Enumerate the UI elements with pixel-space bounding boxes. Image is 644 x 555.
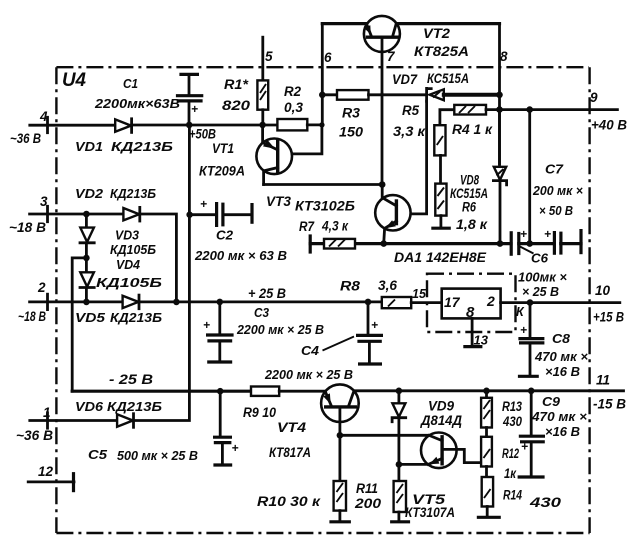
svg-text:R3: R3: [342, 106, 361, 121]
solid box collector rail of VT2: [322, 24, 499, 164]
diode VD6 КД213Б: [117, 414, 133, 428]
IC ground lead: [471, 318, 474, 345]
wire R9 to VT4: [279, 390, 325, 393]
svg-text:1к: 1к: [504, 466, 517, 481]
svg-text:12: 12: [38, 464, 54, 479]
resistor R8 3,6 on +25V line: [382, 297, 411, 308]
resistor R4 1k: [454, 105, 486, 115]
svg-text:С5: С5: [88, 447, 108, 462]
svg-text:VT1: VT1: [212, 141, 234, 156]
svg-text:2: 2: [486, 293, 495, 309]
svg-text:4,3 к: 4,3 к: [321, 219, 349, 234]
transistor VT1 KT209A (PNP): [256, 124, 292, 185]
junction C8 on +15V line: [527, 299, 534, 306]
svg-text:200 мк ×: 200 мк ×: [532, 183, 583, 198]
svg-text:С1: С1: [123, 76, 138, 91]
junction C1 on line 4: [186, 122, 193, 129]
junction VD3/VD4 midpoint: [83, 255, 90, 262]
svg-text:R5: R5: [402, 103, 419, 118]
resistor R5 3,3k vertical: [434, 110, 454, 156]
terminal 1 pin tick: [46, 413, 49, 428]
svg-text:R7: R7: [299, 219, 315, 234]
svg-text:VT4: VT4: [277, 420, 307, 435]
svg-text:8: 8: [466, 304, 475, 321]
wire -25V rail: [72, 390, 251, 393]
svg-text:С3: С3: [254, 305, 270, 320]
wire terminal 12 stub: [28, 480, 74, 483]
junction VD7 line on right vertical: [496, 92, 503, 99]
wire -15V line VT4 to terminal 11: [354, 389, 624, 392]
ground of R6: [433, 227, 449, 230]
svg-text:С4: С4: [301, 343, 320, 358]
transistor VT4 КТ817А: [321, 384, 359, 481]
wire terminal 5 stub: [261, 37, 264, 80]
wire line 1 (~36 V, terminal 1): [30, 419, 117, 422]
svg-text:КД213Б: КД213Б: [107, 399, 162, 414]
junction C5 on -25V rail: [217, 388, 224, 395]
svg-text:500 мк × 25 В: 500 мк × 25 В: [117, 448, 198, 463]
resistor R7 4,3k: [324, 239, 355, 249]
svg-text:+: +: [520, 227, 527, 241]
svg-text:Д814Д: Д814Д: [420, 413, 462, 428]
wire line 4 input rail (~36 V, terminal 4): [30, 124, 115, 127]
junction VD4 on line 2: [83, 299, 90, 306]
svg-text:+: +: [520, 323, 527, 337]
svg-text:×16 В: ×16 В: [545, 424, 580, 439]
wire R4 to terminal 9 (+40V line): [486, 108, 617, 111]
svg-text:КД213Б: КД213Б: [110, 186, 156, 201]
border U4 module dash-dot frame: [56, 67, 589, 533]
svg-text:+: +: [521, 440, 528, 454]
svg-text:- 25 В: - 25 В: [109, 372, 153, 387]
resistor R9 10 on -25V rail: [251, 387, 279, 396]
junction VT3 emitter on C6 line: [380, 240, 387, 247]
svg-text:~18 В: ~18 В: [18, 309, 46, 324]
svg-text:~18 В: ~18 В: [9, 220, 46, 235]
wire C7 branch vertical from +40V line: [528, 110, 531, 244]
wire line 3 (~18 V, terminal 3): [30, 213, 124, 216]
svg-text:КТ3102Б: КТ3102Б: [295, 199, 355, 214]
svg-text:КТ3107А: КТ3107А: [405, 505, 455, 520]
wire line 2 (~18 V, terminal 2): [30, 300, 123, 303]
svg-text:+: +: [191, 102, 198, 116]
svg-text:× 25 В: × 25 В: [522, 284, 559, 299]
junction VD2 branch on line 2: [173, 299, 180, 306]
junction R3 left on line6 vertical: [319, 92, 326, 99]
junction VT1/VT3/VT2 base node: [379, 181, 386, 188]
label C6 with pointer: [520, 247, 534, 254]
R7 left end terminal bar: [309, 236, 312, 252]
svg-text:+50В: +50В: [189, 127, 216, 142]
svg-text:С9: С9: [542, 394, 561, 409]
svg-text:+: +: [203, 318, 210, 332]
diode VD5 КД213Б: [123, 295, 139, 309]
diode VD3 КД105Б: [80, 228, 94, 243]
svg-text:×16 В: ×16 В: [545, 364, 580, 379]
junction VD8 on C6 line: [497, 240, 504, 247]
resistor R11 200 vertical: [394, 481, 406, 520]
svg-text:+: +: [371, 318, 378, 332]
svg-text:КД105Б: КД105Б: [96, 275, 162, 290]
wire VD7 anode to box right vertical (bold): [444, 93, 499, 97]
capacitor C5 500uF 25V: [215, 391, 239, 465]
svg-text:-15 В: -15 В: [593, 397, 626, 412]
svg-text:VD7: VD7: [392, 72, 418, 87]
IC DA1 142ЕН8Е box: [442, 289, 501, 319]
svg-text:430: 430: [529, 495, 562, 510]
transistor VT2 KT825A (PNP) on top rail: [364, 16, 400, 94]
svg-text:К: К: [516, 305, 525, 319]
svg-text:10: 10: [595, 283, 611, 298]
svg-text:R6: R6: [462, 200, 476, 215]
svg-text:100мк ×: 100мк ×: [518, 270, 567, 285]
terminal 2 pin tick: [46, 294, 49, 309]
svg-text:15: 15: [412, 287, 427, 301]
svg-text:R11: R11: [356, 481, 378, 496]
wire +25V line from VD5 to R8: [139, 300, 382, 303]
svg-text:13: 13: [474, 333, 489, 348]
svg-text:R10 30 к: R10 30 к: [257, 494, 321, 509]
svg-text:470 мк ×: 470 мк ×: [531, 409, 587, 424]
svg-text:6: 6: [324, 50, 332, 65]
wire VD3/VD4 string vertical: [85, 214, 88, 302]
svg-text:С7: С7: [545, 162, 564, 177]
hatch R4: [459, 106, 475, 113]
resistor R10 30k vertical: [334, 481, 346, 520]
label C4 with pointer: [323, 337, 355, 351]
svg-text:2200 мк × 63 В: 2200 мк × 63 В: [194, 248, 287, 263]
wire rectifier output vertical (+50V node: C1, C2, VD6): [133, 125, 190, 421]
svg-text:+: +: [544, 227, 551, 241]
svg-text:470 мк ×: 470 мк ×: [534, 349, 588, 364]
capacitor C2 2200uF 63V: [190, 197, 252, 225]
diode VD7 КС515А zener: [427, 88, 444, 101]
svg-text:U4: U4: [62, 70, 86, 91]
svg-text:11: 11: [596, 373, 610, 388]
wire DA1 output to terminal 10 (+15V): [501, 301, 620, 304]
wire line 4 after VD1 to R2: [132, 124, 278, 127]
wire VT2 base down to collector node (crosses VD7 line): [381, 94, 384, 185]
junction R1/VT1 emitter on line 4: [259, 122, 266, 129]
junction VT4 base to VT5 collector line: [337, 432, 344, 439]
svg-text:VD1: VD1: [75, 139, 103, 154]
svg-text:R8: R8: [340, 279, 361, 294]
resistor R13 430 vertical: [481, 388, 492, 437]
svg-text:КТ825А: КТ825А: [414, 44, 469, 59]
svg-text:1: 1: [43, 405, 51, 420]
DA1 dash-dot box: [427, 274, 516, 332]
resistor R2 0,3 on line 4: [277, 119, 307, 130]
capacitor C6 100uF 25V: [511, 227, 527, 254]
wire box vertical between R4 line and VD8: [498, 110, 501, 165]
wire VD2 output corner down to +25V line: [140, 214, 177, 302]
ground of R11: [392, 520, 409, 523]
svg-text:VD6: VD6: [75, 399, 104, 414]
svg-text:R4 1 к: R4 1 к: [452, 122, 493, 137]
svg-text:430: 430: [502, 414, 522, 429]
svg-text:VD2: VD2: [75, 186, 104, 201]
svg-text:3,3 к: 3,3 к: [393, 124, 426, 139]
svg-text:С6: С6: [531, 251, 549, 266]
diode VD8 КС515А zener: [493, 167, 506, 244]
diode VD1 КД213Б: [115, 119, 131, 133]
terminal 4 pin tick: [46, 117, 49, 132]
resistor R6 1,8k vertical: [435, 155, 446, 226]
junction C9 on -15V line: [528, 388, 535, 395]
svg-text:+ 25 В: + 25 В: [248, 286, 286, 301]
junction R2 / line6 vertical: [319, 122, 324, 127]
svg-text:4: 4: [39, 109, 48, 124]
svg-text:+15 В: +15 В: [593, 310, 624, 325]
diode VD9 Д814Д zener: [392, 391, 406, 481]
wire R8 to DA1 input: [411, 301, 442, 304]
junction VD9 on -15V line: [396, 388, 403, 395]
svg-text:КТ817А: КТ817А: [269, 445, 311, 460]
svg-text:КС515А: КС515А: [427, 71, 469, 86]
svg-text:+: +: [232, 441, 239, 455]
svg-text:С2: С2: [216, 228, 234, 243]
resistor R12 1k vertical: [481, 437, 492, 477]
ground of R10: [331, 520, 349, 523]
svg-text:2200 мк × 25 В: 2200 мк × 25 В: [264, 367, 353, 382]
transistor VT3 КТ3102Б (NPN): [375, 185, 410, 244]
ground of DA1: [465, 345, 481, 348]
wire midpoint bypass to -25V rail: [72, 258, 86, 391]
svg-text:820: 820: [222, 98, 251, 113]
svg-text:R12: R12: [502, 446, 519, 461]
wire R2 right end down to VT1 base: [279, 125, 322, 154]
svg-text:+40 В: +40 В: [591, 118, 627, 133]
svg-text:2200 мк × 25 В: 2200 мк × 25 В: [236, 322, 324, 337]
junction VD9 / VT5 emitter line: [396, 461, 403, 468]
wire VT4 base to VT5 collector: [340, 434, 429, 437]
terminal 12 end bar: [72, 474, 75, 491]
junction C2 on rectifier vertical: [186, 212, 192, 218]
svg-text:DA1 142ЕН8Е: DA1 142ЕН8Е: [394, 250, 487, 265]
svg-text:С8: С8: [552, 331, 571, 346]
capacitor C7 200uF 50V: [544, 227, 581, 253]
junction C3 on line 2: [217, 299, 224, 306]
ground of R14: [478, 516, 499, 519]
svg-text:17: 17: [444, 294, 461, 310]
svg-text:VD5: VD5: [75, 310, 106, 325]
svg-text:КД213Б: КД213Б: [111, 139, 173, 154]
svg-text:~36 В: ~36 В: [16, 428, 53, 443]
svg-text:8: 8: [500, 49, 508, 64]
capacitor C4 2200uF 25V: [358, 302, 382, 364]
wire VT1 collector to VT2 base node: [264, 183, 383, 186]
junction C7 branch on C6 line: [526, 240, 533, 247]
svg-text:3: 3: [40, 194, 48, 209]
resistor R1* 820 vertical: [257, 80, 268, 123]
junction +40V line / box vertical: [496, 106, 503, 113]
diode VD4 КД105Б: [80, 272, 94, 287]
wire R3 to VD7: [369, 93, 426, 96]
svg-text:КД105Б: КД105Б: [110, 242, 156, 257]
svg-text:× 50 В: × 50 В: [539, 203, 573, 218]
svg-text:+: +: [200, 197, 207, 211]
resistor R14 430 vertical: [482, 477, 493, 516]
svg-text:VD3: VD3: [115, 228, 140, 243]
svg-text:R14: R14: [503, 488, 522, 503]
svg-text:~36 В: ~36 В: [10, 131, 41, 146]
junction +40V line / C7 branch: [526, 106, 533, 113]
svg-text:3,6: 3,6: [378, 278, 397, 293]
capacitor C3 2200uF 25V: [203, 302, 232, 362]
svg-text:2: 2: [37, 280, 46, 295]
svg-text:5: 5: [265, 49, 273, 64]
svg-text:200: 200: [354, 496, 382, 511]
svg-text:150: 150: [339, 125, 364, 140]
svg-text:VT3: VT3: [266, 194, 291, 209]
svg-text:VD9: VD9: [428, 399, 454, 414]
capacitor C8 470uF 16V: [520, 303, 543, 377]
svg-text:R13: R13: [502, 399, 522, 414]
svg-text:R9 10: R9 10: [243, 405, 276, 420]
svg-text:1,8 к: 1,8 к: [456, 217, 488, 232]
wire C6 line (VT3 emitter rail): [310, 242, 581, 245]
junction VD3 anode on line 3: [83, 211, 90, 218]
wire VD7 cathode down to VT3 base: [397, 101, 427, 214]
svg-text:0,3: 0,3: [284, 100, 303, 115]
junction C4 on line 2: [365, 299, 372, 306]
wire VD9 to VT5 emitter: [399, 463, 428, 466]
svg-text:2200мк×63В: 2200мк×63В: [94, 96, 180, 111]
svg-text:VD4: VD4: [116, 257, 141, 272]
capacitor C1 2200uF 63V: [178, 74, 202, 124]
svg-text:R1*: R1*: [224, 77, 249, 92]
svg-text:КТ209А: КТ209А: [199, 164, 245, 179]
diode VD2 КД213Б: [123, 207, 139, 221]
svg-text:9: 9: [590, 90, 598, 105]
terminal 3 pin tick: [46, 206, 49, 221]
resistor R3 150: [322, 90, 368, 100]
svg-text:R2: R2: [284, 84, 301, 99]
svg-text:VT2: VT2: [423, 26, 451, 41]
capacitor C9 470uF 16V: [519, 391, 543, 477]
svg-text:КД213Б: КД213Б: [110, 310, 162, 325]
transistor VT5 КТ3107А (PNP): [421, 433, 481, 469]
